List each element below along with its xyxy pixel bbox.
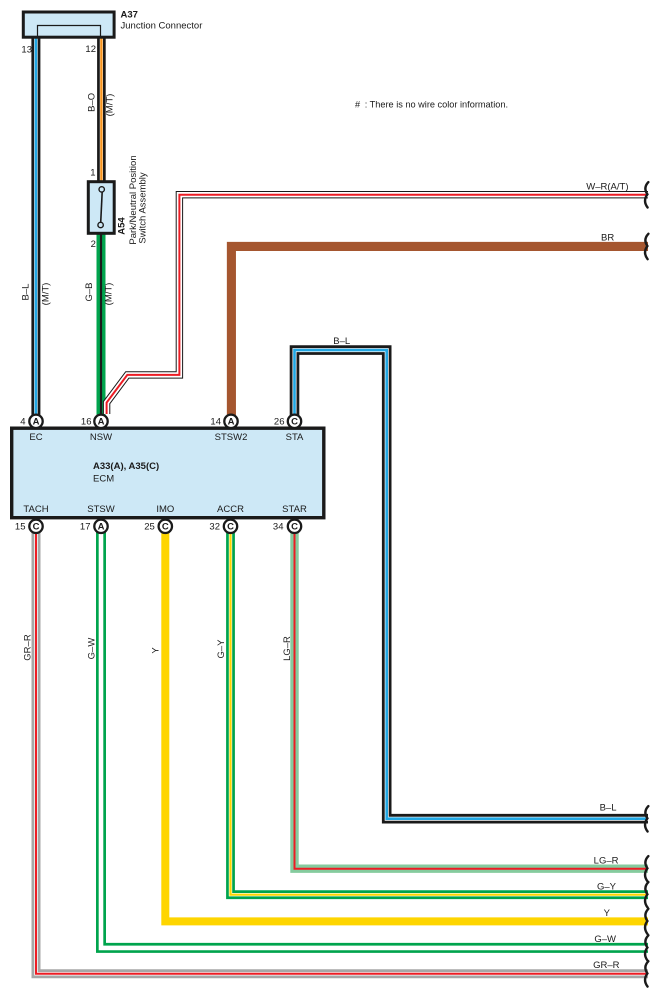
svg-text:C: C xyxy=(291,522,298,533)
svg-text:B–L: B–L xyxy=(600,802,617,813)
svg-text:BR: BR xyxy=(601,233,614,244)
svg-text:1: 1 xyxy=(90,168,95,179)
svg-text:STSW2: STSW2 xyxy=(215,432,248,443)
svg-text:Switch Assembly: Switch Assembly xyxy=(138,172,149,244)
svg-text:G–Y: G–Y xyxy=(597,881,617,892)
svg-text:12: 12 xyxy=(85,44,96,55)
svg-text:25: 25 xyxy=(144,522,155,533)
svg-text:A: A xyxy=(228,417,235,428)
svg-text:A33(A), A35(C): A33(A), A35(C) xyxy=(93,461,159,472)
svg-text:16: 16 xyxy=(81,417,92,428)
svg-text:GR–R: GR–R xyxy=(22,634,33,661)
svg-text:C: C xyxy=(162,522,169,533)
svg-text:TACH: TACH xyxy=(23,504,48,515)
svg-text:G–Y: G–Y xyxy=(216,639,227,659)
svg-text:# : There is no wire color inf: # : There is no wire color information. xyxy=(355,100,508,110)
svg-text:GR–R: GR–R xyxy=(593,960,620,971)
svg-text:STSW: STSW xyxy=(87,504,114,515)
svg-text:(M/T): (M/T) xyxy=(104,94,115,117)
svg-text:C: C xyxy=(291,417,298,428)
svg-text:B–L: B–L xyxy=(20,284,31,301)
svg-text:Junction Connector: Junction Connector xyxy=(121,21,203,32)
svg-text:W–R(A/T): W–R(A/T) xyxy=(586,182,628,193)
svg-text:IMO: IMO xyxy=(156,504,174,515)
svg-text:A: A xyxy=(98,417,105,428)
svg-text:13: 13 xyxy=(21,45,32,56)
svg-text:(M/T): (M/T) xyxy=(40,283,51,306)
svg-text:ACCR: ACCR xyxy=(217,504,244,515)
svg-text:32: 32 xyxy=(209,522,220,533)
svg-text:B–L: B–L xyxy=(333,336,350,347)
svg-text:A: A xyxy=(98,522,105,533)
svg-text:34: 34 xyxy=(273,522,284,533)
svg-text:26: 26 xyxy=(274,417,285,428)
svg-text:LG–R: LG–R xyxy=(282,636,293,661)
svg-text:STA: STA xyxy=(286,432,304,443)
svg-text:G–B: G–B xyxy=(84,282,95,301)
svg-text:A54: A54 xyxy=(117,217,128,235)
svg-text:17: 17 xyxy=(80,522,91,533)
svg-text:NSW: NSW xyxy=(90,432,112,443)
svg-text:C: C xyxy=(227,522,234,533)
svg-text:C: C xyxy=(33,522,40,533)
svg-text:STAR: STAR xyxy=(282,504,307,515)
svg-text:Y: Y xyxy=(151,647,162,654)
svg-text:EC: EC xyxy=(29,432,42,443)
svg-text:G–W: G–W xyxy=(594,934,616,945)
svg-text:LG–R: LG–R xyxy=(594,855,619,866)
svg-text:14: 14 xyxy=(210,417,221,428)
svg-text:ECM: ECM xyxy=(93,474,114,485)
svg-text:B–O: B–O xyxy=(87,93,98,112)
svg-text:A: A xyxy=(33,417,40,428)
svg-text:4: 4 xyxy=(20,417,25,428)
svg-text:A37: A37 xyxy=(121,10,138,21)
svg-text:G–W: G–W xyxy=(87,638,98,660)
svg-text:(M/T): (M/T) xyxy=(104,283,115,306)
svg-text:2: 2 xyxy=(91,239,96,250)
svg-text:Y: Y xyxy=(604,908,611,919)
svg-text:15: 15 xyxy=(15,522,26,533)
